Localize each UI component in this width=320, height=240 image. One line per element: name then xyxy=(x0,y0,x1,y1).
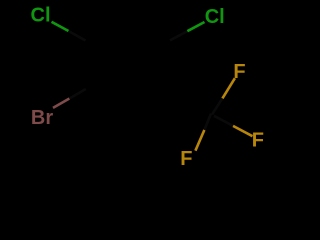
bond C-F top (F half) xyxy=(222,78,235,98)
bond C1-Cl1 (C half, near-invisible) xyxy=(69,31,86,41)
bond C5-Br (Br half) xyxy=(53,99,69,108)
bond C-F right (C half, near-invisible) xyxy=(214,116,233,126)
bond C1-Cl1 (Cl half) xyxy=(52,22,69,31)
bond C-F right (F half) xyxy=(233,126,253,136)
svg-text:Br: Br xyxy=(31,107,53,129)
bond C-F top (C half, near-invisible) xyxy=(212,98,222,114)
bond C-F lower-left (F half) xyxy=(195,130,204,151)
svg-text:F: F xyxy=(252,130,264,152)
svg-text:F: F xyxy=(180,148,192,170)
svg-text:F: F xyxy=(233,61,245,83)
bond C2-Cl2 (Cl half) xyxy=(187,22,204,31)
svg-text:Cl: Cl xyxy=(205,6,225,28)
svg-text:Cl: Cl xyxy=(31,5,51,27)
bond C2-Cl2 (C half, near-invisible) xyxy=(170,31,187,40)
bond C-F lower-left (C half, near-invisible) xyxy=(204,114,211,130)
bond C5-Br (C half, near-invisible) xyxy=(69,89,85,99)
